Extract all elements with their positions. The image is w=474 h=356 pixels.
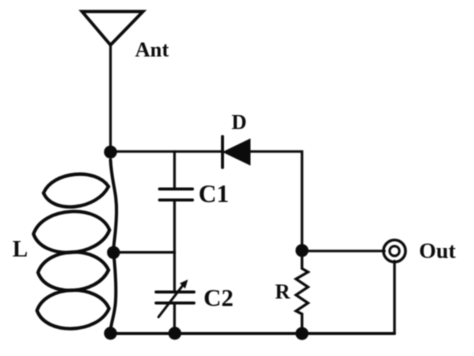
junction node A <box>104 146 117 159</box>
wire R top to Out connector <box>302 250 385 253</box>
inductor L loop 1 <box>44 174 109 207</box>
capacitor C2 plates <box>156 292 194 303</box>
wire diode anode to right corner <box>250 152 303 251</box>
capacitor C2 variable arrow <box>159 283 186 318</box>
junction coil bottom <box>104 327 117 340</box>
connector Out inner ring <box>390 246 400 256</box>
wire C2 to bottom <box>173 305 176 334</box>
inductor L right side arc lower <box>111 252 116 331</box>
junction R bottom <box>296 327 309 340</box>
inductor L loop 4 <box>37 290 109 328</box>
svg-text:R: R <box>275 280 291 304</box>
inductor L right side arc upper <box>111 160 117 252</box>
resistor R zigzag <box>296 251 308 334</box>
svg-text:D: D <box>232 110 247 134</box>
svg-text:Out: Out <box>419 238 456 263</box>
antenna symbol <box>82 12 143 46</box>
junction R top <box>296 244 309 257</box>
junction coil tap <box>107 246 120 259</box>
bottom wire (ground bus) <box>111 332 395 335</box>
diode D cathode bar <box>221 137 224 168</box>
wire node A to capacitor C1 <box>173 152 176 188</box>
wire Out connector down <box>393 261 396 334</box>
wire tee junction to capacitor C2 <box>173 253 176 291</box>
wire C1 to tee junction <box>173 202 176 253</box>
inductor L loop 3 <box>38 252 109 290</box>
junction C2 bottom <box>168 327 181 340</box>
wire node A to diode cathode <box>111 150 222 153</box>
svg-text:Ant: Ant <box>135 38 169 62</box>
connector Out outer ring <box>384 240 406 262</box>
inductor L loop 2 <box>34 211 110 252</box>
diode D anode triangle <box>225 140 250 164</box>
wire antenna lead down to node A <box>109 45 112 152</box>
capacitor C1 plates <box>160 189 193 200</box>
svg-text:C2: C2 <box>204 285 234 312</box>
svg-text:L: L <box>13 237 28 262</box>
wire coil tap to tee junction <box>114 251 175 254</box>
svg-text:C1: C1 <box>199 181 230 208</box>
